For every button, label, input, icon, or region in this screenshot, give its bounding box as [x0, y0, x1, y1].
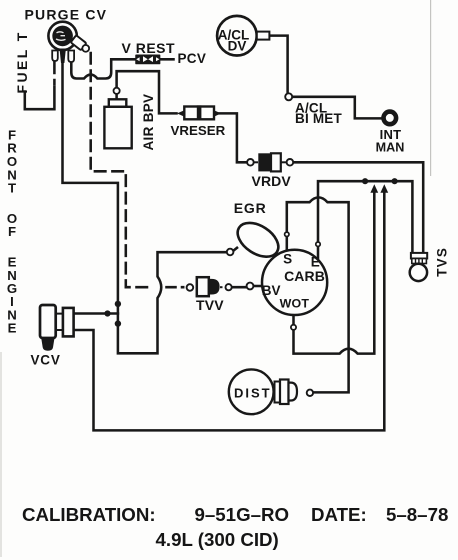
svg-text:PCV: PCV — [178, 51, 207, 66]
wire: TVV right port to carb BV port — [232, 286, 247, 289]
AIR BPV body — [104, 107, 131, 149]
carb E port circle — [316, 242, 320, 246]
wire: BV port circle to carb body — [254, 285, 263, 288]
A/CL DV motor — [217, 16, 269, 56]
carb WOT port circle — [291, 325, 296, 330]
svg-text:CALIBRATION:: CALIBRATION: — [22, 504, 156, 525]
svg-text:DIST: DIST — [234, 385, 272, 400]
wire: AIR BPV port stub — [115, 94, 118, 100]
VRDV valve — [247, 153, 293, 171]
AIR BPV cap — [109, 99, 127, 107]
wire: purge CV right port to V REST valve (wavy hose with hop over dashed line) — [71, 59, 136, 78]
svg-text:TVV: TVV — [196, 297, 224, 313]
svg-text:TVS: TVS — [434, 247, 449, 277]
junction dot lower on purge vertical — [115, 320, 121, 326]
junction dot upper on purge vertical — [115, 301, 121, 307]
wire: VCV bottom port down and along bottom, up to arrow tap — [74, 191, 385, 430]
svg-text:BI MET: BI MET — [295, 111, 343, 126]
svg-text:9–51G–RO: 9–51G–RO — [195, 504, 290, 525]
svg-text:EGR: EGR — [234, 200, 267, 216]
EGR valve — [227, 216, 285, 264]
purge CV left port — [52, 51, 58, 62]
wire: carb S port up, across with hop over E line, down, to DIST — [287, 197, 349, 392]
wire: carb S port stub to carb body — [286, 237, 289, 251]
INT MAN fitting — [384, 112, 397, 125]
svg-text:4.9L (300 CID): 4.9L (300 CID) — [156, 529, 279, 550]
wire: AIR BPV top port up and over to VRESER — [117, 71, 177, 113]
svg-text:DV: DV — [228, 39, 247, 54]
wire: A/CL DV port to A/CL BIMET tap — [269, 36, 287, 94]
svg-text:VCV: VCV — [31, 352, 61, 367]
wire: A/CL BIMET tap to INT MAN — [292, 97, 381, 119]
svg-text:CARB: CARB — [284, 268, 325, 284]
purge CV valve body — [48, 22, 76, 50]
svg-text:WOT: WOT — [280, 297, 310, 311]
wire: purge CV center port down, across, down, U-bottom, up with hop, to EGR — [63, 50, 227, 353]
VCV valve — [40, 305, 74, 351]
purge CV angled port — [71, 35, 92, 54]
AIR BPV port circle — [114, 88, 120, 94]
carburetor circle — [262, 250, 327, 315]
wire: VRDV right port across top to TVS right lead — [293, 162, 423, 253]
carb BV port circle — [247, 283, 254, 290]
wire: dashed from purge CV left port to FUEL T bracket — [53, 63, 56, 85]
wire: dashed continuation under hop to TVV left port — [167, 286, 184, 289]
wire: VCV top port to purge line tee — [74, 312, 118, 315]
wire: carb WOT port down, across with hop over S line, up to arrow tap — [294, 191, 375, 354]
junction dot on VCV line — [104, 310, 110, 316]
AIR BPV canister — [104, 88, 131, 149]
carb S port circle — [285, 232, 289, 236]
scan edge artifact left — [0, 352, 2, 557]
svg-text:BV: BV — [262, 283, 281, 298]
svg-text:AIR BPV: AIR BPV — [141, 94, 156, 151]
svg-text:FUEL T: FUEL T — [14, 30, 30, 93]
wire: carb WOT port stub — [292, 315, 295, 324]
A/CL BIMET tap circle — [285, 93, 292, 100]
arrowhead tap of WOT line into E-TVS line — [370, 184, 378, 193]
purge CV center dark stub — [60, 49, 66, 64]
svg-text:V REST: V REST — [122, 40, 176, 56]
wire: V REST valve to PCV label — [160, 58, 173, 61]
svg-text:5–8–78: 5–8–78 — [386, 504, 448, 525]
TVS switch — [410, 253, 428, 281]
wire: FUEL T bracket — [25, 87, 55, 110]
svg-text:S: S — [283, 252, 292, 267]
svg-text:VRESER: VRESER — [171, 123, 226, 138]
wire: dashed from purge CV angled port down-across-down to TVV line — [91, 53, 150, 287]
TVV valve — [187, 277, 232, 296]
text FRONT OF ENGINE (vertical letters) — [7, 127, 17, 335]
DIST distributor — [229, 369, 313, 414]
VRESER vacuum reservoir — [177, 105, 221, 120]
svg-text:F: F — [8, 224, 16, 239]
wire: carb E port stub to carb body — [317, 247, 320, 260]
scan edge artifact right — [430, 0, 432, 176]
wire: VRESER right to VRDV left port — [220, 113, 247, 162]
purge CV right port — [68, 51, 74, 63]
svg-text:DATE:: DATE: — [311, 504, 367, 525]
arrowhead tap of VCV bottom line into E-TVS line — [380, 184, 388, 193]
svg-text:MAN: MAN — [376, 141, 405, 155]
svg-text:PURGE CV: PURGE CV — [25, 7, 108, 23]
svg-text:T: T — [8, 181, 16, 196]
junction dot right on E-TVS line — [392, 178, 398, 184]
svg-text:E: E — [8, 321, 17, 336]
V REST valve — [136, 55, 160, 63]
svg-text:VRDV: VRDV — [252, 173, 292, 189]
junction dot left on E-TVS line — [362, 178, 368, 184]
wire: carb E port up, across (dots+arrow taps), down to TVS left lead — [318, 181, 412, 253]
